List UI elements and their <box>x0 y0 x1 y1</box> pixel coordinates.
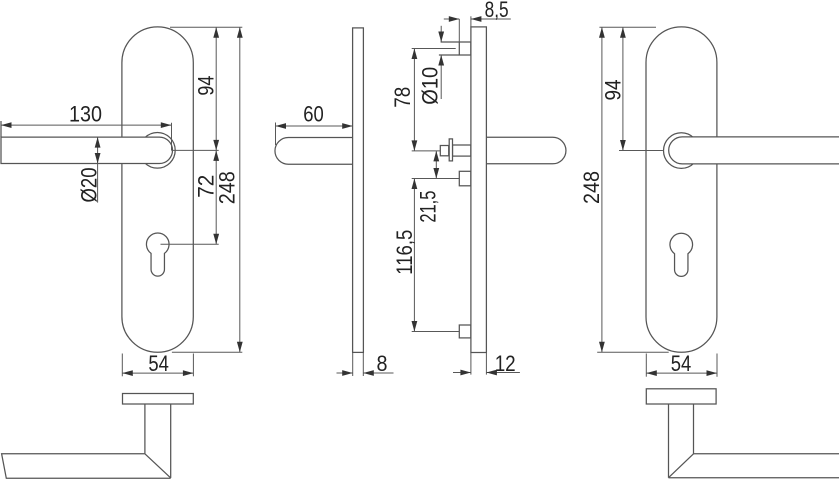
witness lines (right view) <box>597 27 669 352</box>
plan view neck and grip (left) <box>2 404 171 478</box>
plan view neck and grip (right) <box>669 404 839 478</box>
backplate sectional profile <box>471 27 487 353</box>
euro-profile keyhole (right view) <box>670 233 693 276</box>
svg-text:116,5: 116,5 <box>392 230 417 275</box>
handle boss circle (left view) <box>140 133 176 169</box>
spindle bolt head <box>440 146 448 156</box>
svg-text:54: 54 <box>148 351 169 376</box>
bottom fixing screw <box>459 325 471 338</box>
svg-text:Ø20: Ø20 <box>77 168 102 203</box>
dimension 8,5 (screw protrusion) <box>444 0 511 42</box>
svg-text:94: 94 <box>601 80 626 101</box>
backplate side profile <box>353 28 364 353</box>
lever grip (left view) <box>1 121 173 164</box>
dimension 60 (lever projection) <box>276 102 353 146</box>
witness lines (left view) <box>161 27 243 352</box>
svg-text:60: 60 <box>303 102 324 127</box>
svg-text:94: 94 <box>194 76 219 96</box>
dimension 116,5 (middle to bottom screw) <box>392 179 417 332</box>
lever grip (right view) <box>669 137 839 164</box>
svg-text:248: 248 <box>215 171 240 204</box>
handle boss circle (right view) <box>664 133 700 169</box>
dimension Ø10 (screw diameter) <box>418 26 445 105</box>
svg-text:78: 78 <box>390 87 415 108</box>
dimension 21,5 (handle axis to middle screw) <box>416 151 441 223</box>
plan view plate slab (left) <box>123 394 194 405</box>
lever grip (plate side view) <box>275 138 353 165</box>
middle fixing screw <box>459 171 471 186</box>
svg-text:248: 248 <box>579 171 604 204</box>
svg-text:12: 12 <box>495 351 516 376</box>
top fixing screw Ø10 <box>439 42 471 55</box>
dimension 130 (grip length) <box>1 101 172 150</box>
euro-profile keyhole (left view) <box>146 233 169 276</box>
dimension Ø20 (grip diameter) <box>77 137 102 203</box>
dimension 94 (top to handle axis, right view) <box>601 27 626 150</box>
plan view plate slab (right) <box>646 389 716 404</box>
dimension 54 (plate width, right view) <box>646 351 717 377</box>
witness lines (sectional view) <box>412 49 460 332</box>
spindle shaft <box>453 145 471 156</box>
dimension 72 (handle axis to keyhole) <box>194 150 220 244</box>
backplate front view (right) <box>646 27 717 352</box>
dimension 248 (plate height, left view) <box>215 27 243 352</box>
svg-text:8,5: 8,5 <box>485 0 509 22</box>
spindle collar <box>449 139 452 161</box>
dimension 12 (overall plate depth) <box>453 351 520 376</box>
svg-text:130: 130 <box>69 101 102 126</box>
svg-text:21,5: 21,5 <box>416 191 441 223</box>
svg-text:54: 54 <box>671 351 692 376</box>
svg-text:8: 8 <box>377 351 388 376</box>
backplate front view (left) <box>122 27 193 352</box>
dimension 54 (plate width, left view) <box>122 351 193 376</box>
svg-text:Ø10: Ø10 <box>418 67 443 105</box>
dimension 94 (top to handle axis, left view) <box>194 27 220 150</box>
lever grip (sectional view) <box>486 137 566 164</box>
dimension 78 (screw to handle axis) <box>390 49 417 151</box>
dimension 248 (plate height, right view) <box>579 27 605 352</box>
dimension 8 (plate thickness) <box>337 351 394 376</box>
